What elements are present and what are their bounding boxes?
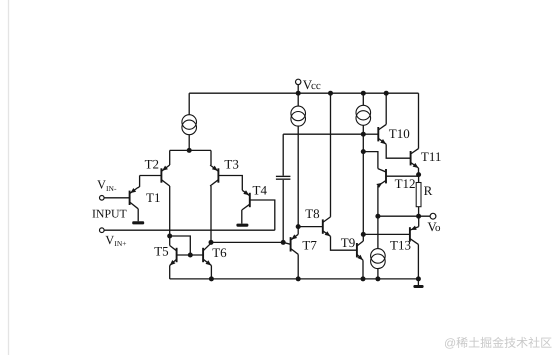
wire tail left drop to T2 emitter bbox=[169, 150, 171, 165]
wire I4 bottom bbox=[377, 269, 379, 279]
svg-text:T1: T1 bbox=[146, 190, 160, 205]
resistor R bbox=[416, 183, 421, 207]
node T12 collector branch bbox=[361, 149, 366, 154]
wire I2 top stub bbox=[297, 93, 299, 106]
svg-text:T11: T11 bbox=[421, 149, 441, 164]
svg-text:T8: T8 bbox=[305, 206, 319, 221]
svg-text:T9: T9 bbox=[341, 235, 355, 250]
label T3 bbox=[224, 156, 238, 171]
transistor T6 bbox=[203, 243, 211, 265]
svg-text:o: o bbox=[435, 222, 441, 234]
wire T10 emitter to T11 base bbox=[386, 144, 410, 158]
transistor T13 bbox=[410, 226, 419, 245]
svg-text:T10: T10 bbox=[389, 126, 410, 141]
page left border line bbox=[8, 0, 10, 355]
wire T11 emitter down bbox=[418, 168, 420, 175]
transistor T2 bbox=[161, 165, 169, 186]
node cap-T7 base junction bbox=[281, 240, 286, 245]
wire R bottom lead bbox=[418, 207, 420, 217]
svg-text:INPUT: INPUT bbox=[92, 206, 128, 220]
node Vcc-I2 junction bbox=[296, 91, 301, 96]
label Vcc bbox=[303, 77, 313, 92]
ground at rail end bbox=[413, 285, 423, 288]
svg-text:T4: T4 bbox=[253, 183, 268, 198]
wire V_IN- to T1 base bbox=[104, 197, 130, 199]
label V_IN+ bbox=[105, 233, 126, 248]
wire tail crossbar bbox=[170, 149, 211, 151]
current source I1 bbox=[182, 115, 197, 135]
current source I2 bbox=[291, 106, 306, 126]
node T12 emitter / Vo line bbox=[375, 214, 380, 219]
node rail-T10 collector junction bbox=[384, 91, 389, 96]
wire I2 bottom to T8 base node bbox=[297, 126, 299, 227]
wire T3 base to T4 emitter bbox=[218, 176, 242, 191]
node T10 base junction bbox=[361, 132, 366, 137]
label T9 bbox=[341, 235, 355, 250]
wire R top lead bbox=[418, 175, 420, 183]
svg-text:@稀土掘金技术社区: @稀土掘金技术社区 bbox=[444, 336, 552, 350]
node T11 emitter / R top / T12 base bbox=[416, 172, 421, 177]
Vcc rail bbox=[189, 92, 418, 94]
wire T6 emitter down bbox=[210, 266, 212, 279]
wire T13 base line bbox=[363, 233, 410, 235]
node rail-T13 collector bbox=[416, 276, 421, 281]
label Vo bbox=[427, 219, 437, 234]
transistor T9 bbox=[357, 241, 363, 260]
svg-text:T13: T13 bbox=[390, 238, 411, 253]
wire T8 collector up to rail bbox=[330, 93, 332, 217]
node rail-T6 emitter bbox=[209, 276, 214, 281]
wire T12 collector path bbox=[363, 152, 378, 169]
ground under T1 bbox=[132, 221, 144, 224]
bottom rail bbox=[170, 278, 419, 280]
wire T2 collector down bbox=[169, 186, 171, 236]
label T1 bbox=[146, 190, 160, 205]
transistor T11 bbox=[411, 149, 419, 168]
label Vcc cc bbox=[311, 80, 321, 92]
svg-text:T3: T3 bbox=[224, 156, 238, 171]
wire mirror output to T7 base bbox=[211, 242, 291, 244]
wire rail left drop to current source I1 bbox=[188, 93, 190, 115]
node rail-T9 emitter bbox=[361, 276, 366, 281]
wire T1 collector down bbox=[137, 209, 139, 222]
Vcc terminal bbox=[296, 79, 301, 93]
node rail-I4 bbox=[375, 276, 380, 281]
current source I3 bbox=[356, 105, 371, 125]
svg-text:VIN-: VIN- bbox=[97, 178, 117, 193]
label T13 bbox=[390, 238, 411, 253]
wire T2col to T5 collector bbox=[169, 236, 171, 246]
svg-text:T7: T7 bbox=[302, 238, 317, 253]
label Vo o bbox=[435, 222, 441, 234]
label R bbox=[424, 183, 433, 198]
wire T7 collector down bbox=[297, 254, 299, 279]
node T8 base / T7 emitter junction bbox=[296, 224, 301, 229]
wire T13 collector down bbox=[417, 244, 419, 279]
wire T12emitter to I4 bbox=[377, 216, 379, 248]
transistor T4 bbox=[242, 190, 250, 210]
svg-text:VIN+: VIN+ bbox=[105, 233, 126, 248]
watermark text bbox=[444, 336, 552, 350]
label T8 bbox=[305, 206, 319, 221]
svg-text:T5: T5 bbox=[154, 243, 168, 258]
wire T4 base right-down to VIN+ wire bbox=[250, 200, 275, 230]
label T2 bbox=[145, 156, 159, 171]
svg-text:R: R bbox=[424, 183, 433, 198]
terminal V_IN- bbox=[100, 196, 105, 201]
wire branch to mirror bases bbox=[170, 236, 191, 255]
wire T5 emitter down bbox=[169, 266, 171, 279]
svg-text:cc: cc bbox=[311, 80, 321, 92]
wire tail right drop to T3 emitter bbox=[210, 150, 212, 165]
node tail junction bbox=[187, 148, 192, 153]
wire T9 emitter down bbox=[362, 260, 364, 279]
wire mirror base tie line bbox=[177, 254, 204, 256]
transistor T8 bbox=[323, 217, 331, 236]
svg-text:T2: T2 bbox=[145, 156, 159, 171]
current source I4 bbox=[371, 249, 386, 269]
svg-text:T12: T12 bbox=[395, 176, 416, 191]
transistor T3 bbox=[210, 165, 218, 186]
node mirror base tie bbox=[188, 253, 193, 258]
label T10 bbox=[389, 126, 410, 141]
wire rail right drop to T11 collector bbox=[418, 93, 420, 148]
wire T13 emitter up bbox=[418, 216, 420, 226]
capacitor C bbox=[276, 176, 291, 180]
node rail-I3 junction bbox=[361, 91, 366, 96]
wire rail ground stub bbox=[417, 279, 419, 285]
transistor T5 bbox=[170, 246, 177, 266]
wire I3 top stub bbox=[362, 93, 364, 105]
label V_IN- bbox=[97, 178, 117, 193]
wire T1 emitter up bbox=[138, 176, 140, 188]
terminal Vo bbox=[430, 213, 436, 219]
wire T4 collector down bbox=[241, 210, 243, 224]
svg-text:T6: T6 bbox=[212, 245, 227, 260]
wire T8 emitter to T9 base bbox=[331, 236, 357, 250]
label T4 bbox=[253, 183, 268, 198]
wire T1 emitter to T2 base bbox=[140, 175, 162, 177]
wire T8 base bbox=[298, 226, 323, 228]
label T12 bbox=[395, 176, 416, 191]
node rail-T8 collector junction bbox=[328, 91, 333, 96]
terminal V_IN+ bbox=[100, 228, 105, 233]
wire cap top lead bbox=[282, 134, 284, 176]
node T6 collector junction bbox=[209, 240, 214, 245]
transistor T7 bbox=[291, 234, 299, 254]
wire Vo line bbox=[378, 215, 430, 217]
wire I1 bottom to tail node bbox=[188, 135, 190, 151]
transistor T10 bbox=[378, 124, 386, 144]
ground under T4 bbox=[236, 224, 248, 227]
node R bottom / T13 emitter bbox=[416, 214, 421, 219]
label T5 bbox=[154, 243, 168, 258]
label T6 bbox=[212, 245, 227, 260]
wire T10 base bbox=[363, 133, 378, 135]
transistor T12 bbox=[376, 169, 386, 188]
wire cap bottom lead bbox=[282, 180, 284, 243]
transistor T1 bbox=[130, 188, 139, 209]
label T11 bbox=[421, 149, 441, 164]
node T2 collector branch bbox=[167, 234, 172, 239]
wire T7 emitter up bbox=[297, 227, 299, 235]
wire T12 emitter down bbox=[377, 186, 379, 216]
wire I3 bottom / main vertical bbox=[362, 126, 364, 242]
wire T12 base bbox=[386, 175, 419, 177]
wire V_IN+ run bbox=[104, 229, 275, 231]
wire T10 collector up bbox=[385, 93, 387, 124]
wire T3 collector down bbox=[210, 186, 212, 242]
label T7 bbox=[302, 238, 317, 253]
node rail-T7 collector bbox=[296, 276, 301, 281]
label INPUT bbox=[92, 206, 128, 220]
node T13 base branch bbox=[361, 232, 366, 237]
wire cap top to T10 base line bbox=[283, 133, 363, 135]
